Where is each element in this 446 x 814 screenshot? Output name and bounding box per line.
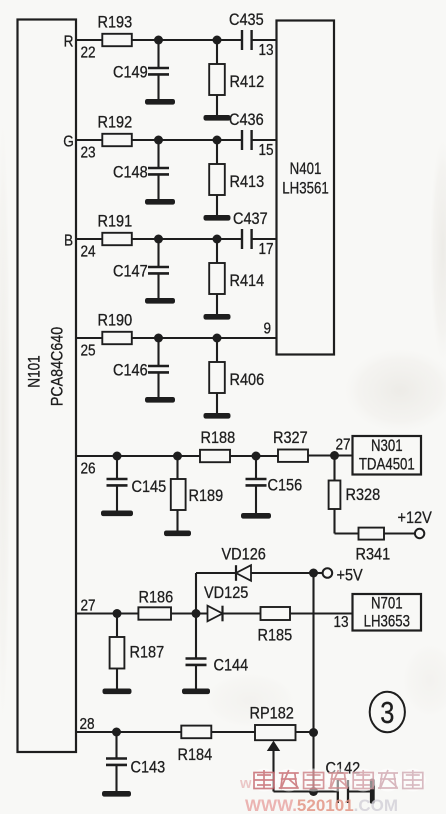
svg-text:R414: R414	[230, 272, 265, 290]
svg-text:C156: C156	[268, 477, 303, 495]
svg-text:3: 3	[380, 695, 394, 730]
svg-text:C147: C147	[113, 263, 148, 281]
svg-text:27: 27	[81, 598, 96, 615]
svg-text:N401: N401	[290, 160, 322, 179]
svg-text:C146: C146	[113, 362, 148, 380]
svg-text:C437: C437	[233, 210, 268, 228]
svg-text:N301: N301	[371, 437, 403, 456]
svg-text:24: 24	[81, 244, 96, 261]
svg-text:R184: R184	[178, 746, 213, 764]
svg-text:26: 26	[81, 461, 96, 478]
svg-text:13: 13	[334, 614, 349, 631]
svg-text:C144: C144	[214, 657, 249, 675]
svg-text:R192: R192	[98, 114, 133, 132]
svg-text:RP182: RP182	[250, 705, 294, 723]
svg-text:R327: R327	[273, 429, 308, 447]
svg-text:B: B	[64, 233, 73, 250]
svg-text:23: 23	[81, 145, 96, 162]
svg-text:R185: R185	[258, 627, 293, 645]
svg-text:C143: C143	[131, 759, 166, 777]
svg-text:R341: R341	[356, 546, 391, 564]
svg-text:25: 25	[81, 343, 96, 360]
svg-text:N101: N101	[25, 355, 44, 387]
svg-text:PCA84C640: PCA84C640	[48, 327, 66, 407]
svg-text:R191: R191	[98, 213, 133, 231]
svg-text:LH3653: LH3653	[364, 612, 410, 631]
svg-text:C145: C145	[132, 478, 167, 496]
svg-text:WWW.520101.COM: WWW.520101.COM	[245, 796, 398, 814]
svg-text:13: 13	[259, 42, 274, 59]
svg-text:R188: R188	[201, 429, 236, 447]
svg-text:C148: C148	[113, 164, 148, 182]
svg-text:9: 9	[264, 321, 272, 338]
svg-text:TDA4501: TDA4501	[359, 455, 415, 474]
svg-text:R: R	[64, 34, 74, 51]
svg-text:C149: C149	[113, 64, 148, 82]
svg-text:R328: R328	[346, 486, 381, 504]
svg-text:N701: N701	[371, 594, 403, 613]
svg-text:27: 27	[336, 437, 351, 454]
svg-text:VD125: VD125	[204, 584, 248, 602]
svg-text:R189: R189	[189, 487, 224, 505]
svg-text:+12V: +12V	[398, 509, 433, 527]
svg-text:R190: R190	[98, 312, 133, 330]
svg-text:R412: R412	[230, 73, 265, 91]
svg-text:LH3561: LH3561	[282, 179, 328, 198]
svg-text:C435: C435	[229, 11, 264, 29]
svg-text:C436: C436	[229, 111, 264, 129]
svg-text:17: 17	[259, 241, 274, 258]
svg-text:22: 22	[81, 45, 96, 62]
svg-text:+5V: +5V	[337, 567, 364, 585]
svg-text:VD126: VD126	[222, 546, 266, 564]
svg-text:w: w	[239, 775, 252, 792]
svg-text:G: G	[63, 134, 74, 151]
svg-text:28: 28	[80, 716, 95, 733]
svg-text:R187: R187	[130, 644, 165, 662]
svg-text:R186: R186	[139, 589, 174, 607]
svg-text:15: 15	[259, 142, 274, 159]
svg-text:R413: R413	[230, 173, 265, 191]
svg-text:R406: R406	[230, 371, 265, 389]
svg-text:R193: R193	[98, 14, 133, 32]
